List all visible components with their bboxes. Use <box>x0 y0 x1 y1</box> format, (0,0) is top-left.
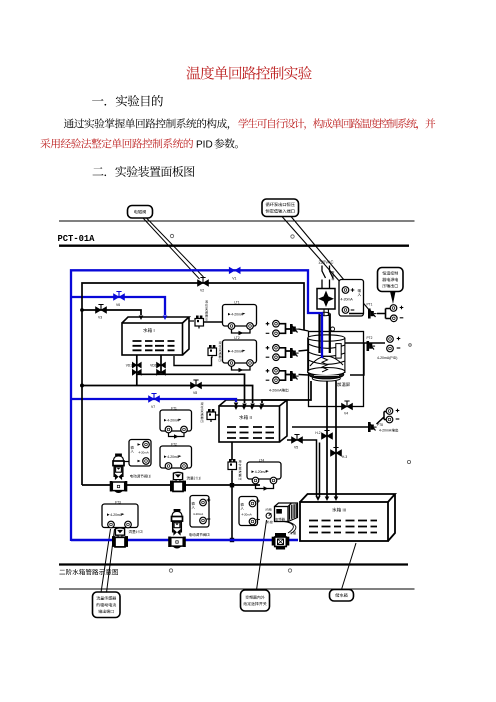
jack row 2 (temperature sensor) <box>290 348 293 358</box>
panel top thin rail <box>59 220 415 222</box>
screw hole right <box>407 460 410 463</box>
valve positioner input box 3 <box>239 497 258 526</box>
valve V2 <box>198 280 209 286</box>
svg-text:4-20mA: 4-20mA <box>341 298 354 302</box>
screw hole near PT2 <box>409 344 412 347</box>
heater enclosure (jia wen ping) <box>309 332 364 407</box>
valve V4 on heater hotwell <box>342 403 353 409</box>
panel bottom thin rail <box>59 588 415 590</box>
water tank II <box>219 400 287 442</box>
panel top thick rail <box>59 244 409 246</box>
blue valve V6 <box>114 294 125 300</box>
blue pipe: branch to tank II <box>71 399 236 402</box>
black pipe: tank II overflow to tank III (double) <box>287 440 320 497</box>
leader to PT1 jack <box>291 217 370 312</box>
FT1 display box <box>160 410 192 431</box>
leader from inverter callout <box>257 520 267 590</box>
jack row 1 (heater power) <box>290 324 293 334</box>
callout: solenoid valve (dian ci fa) <box>128 206 153 219</box>
callout: pump outlet / setpoint input port <box>262 199 299 217</box>
water tank III <box>300 494 395 541</box>
black pipe: branch to tank I <box>82 310 141 315</box>
wire PT1 box to jack PT1 <box>349 313 385 315</box>
svg-text:V5: V5 <box>294 446 298 450</box>
wire heater to jack PT2 <box>345 343 385 375</box>
svg-text:PT1: PT1 <box>367 303 373 307</box>
leaders from flow sensor callout <box>101 529 115 593</box>
svg-text:H-2: H-2 <box>315 431 320 435</box>
valve H-3 <box>331 450 342 456</box>
wire transmitter1 to LT1 box <box>204 321 222 323</box>
tail of thermostat callout <box>390 292 396 305</box>
svg-text:LT4: LT4 <box>259 459 264 463</box>
black pipe: heater outlet to tank II <box>262 381 311 403</box>
svg-text:PT2: PT2 <box>367 336 373 340</box>
svg-text:4-20mA: 4-20mA <box>167 419 180 423</box>
svg-text:V4: V4 <box>344 412 348 416</box>
turbine flowmeter 2 <box>115 528 124 535</box>
drain valves VD3 VD4 on tank I right outlet <box>157 362 166 368</box>
svg-text:4-20mA: 4-20mA <box>231 350 244 354</box>
temperature probe <box>331 327 335 331</box>
blue pipe: main loop left/top to heater <box>71 270 322 541</box>
valve V3 <box>96 307 107 313</box>
svg-text:V2: V2 <box>200 289 204 293</box>
svg-text:4-20mA: 4-20mA <box>110 513 123 517</box>
terminal pair PT1 (thermostat power) <box>385 309 387 319</box>
LT2 display box <box>223 340 257 363</box>
svg-text:4-20mA: 4-20mA <box>193 512 203 516</box>
valve positioner input box 2 <box>190 496 209 528</box>
level transmitter 1 (tank I) <box>189 320 194 322</box>
svg-text:V8: V8 <box>193 391 197 395</box>
drain valves VD1 VD2 on tank I left outlet <box>132 362 141 368</box>
svg-text:FT1: FT1 <box>171 407 177 411</box>
svg-text:4-20mA: 4-20mA <box>242 513 252 517</box>
svg-text:220VAC: 220VAC <box>319 260 334 265</box>
blue pipe: bottom return line <box>71 539 298 542</box>
svg-text:4-20mA(PID): 4-20mA(PID) <box>377 356 397 360</box>
solenoid outlet pipes <box>324 309 328 316</box>
breaker switches <box>322 266 333 289</box>
inner tube <box>320 314 330 354</box>
svg-text:4-20mA: 4-20mA <box>379 429 392 433</box>
callout: flow sensor drive current output port <box>93 592 121 618</box>
screw hole top-left <box>170 234 173 237</box>
heading 2 <box>93 166 195 177</box>
leader from solenoid callout to valve V2 <box>143 218 204 279</box>
terminal pair row 1 (heater power) <box>266 322 270 326</box>
svg-text:V6: V6 <box>116 303 120 307</box>
black pipe: tank I drain header <box>82 386 253 404</box>
LT2 wires down <box>232 367 251 371</box>
svg-text:VD2: VD2 <box>150 364 156 368</box>
valve H-2 <box>322 433 333 439</box>
svg-text:V3: V3 <box>98 316 102 320</box>
water tank I <box>122 317 189 355</box>
wire jack to heater <box>299 329 309 331</box>
svg-text:PCT-01A: PCT-01A <box>58 234 96 244</box>
wires inverter to pump <box>284 522 296 534</box>
wire jack to heater <box>299 350 309 351</box>
svg-text:V7: V7 <box>151 405 155 409</box>
svg-text:4-20mA: 4-20mA <box>255 470 268 474</box>
valve V8 on drain header <box>191 382 202 388</box>
screw hole bottom-left <box>169 569 172 572</box>
svg-text:VD1: VD1 <box>126 364 132 368</box>
heading 1 <box>92 95 163 107</box>
terminal pair PT2 <box>387 336 394 343</box>
screw hole top-right <box>291 235 294 238</box>
caption: two-tank piping schematic <box>59 569 118 575</box>
svg-text:LT2: LT2 <box>234 336 239 340</box>
LT4 display box <box>247 462 281 479</box>
panel bottom thick rail <box>59 563 408 565</box>
turbine flowmeter 1 <box>173 472 182 479</box>
svg-text:FT3: FT3 <box>115 501 121 505</box>
svg-text:FT2: FT2 <box>171 443 177 447</box>
paragraph line 2 <box>40 138 193 148</box>
leader to breaker <box>282 217 341 284</box>
paragraph line 1 <box>64 118 229 129</box>
line to PT8 jack <box>292 426 368 428</box>
FT3 display box <box>102 504 138 528</box>
level transmitter 3 (tank II) <box>213 414 219 416</box>
circulation pump <box>275 533 286 537</box>
blue valve V1 <box>229 267 240 273</box>
PT1 input box <box>339 280 364 317</box>
document title <box>186 66 311 80</box>
heater vessel body <box>308 335 345 341</box>
level transmitter 2 <box>174 356 212 366</box>
terminal pair row 3 (stirrer) <box>266 369 270 373</box>
wire jack to heater <box>299 374 309 377</box>
solenoid valve box <box>317 289 335 310</box>
electric control valve 2 <box>174 509 181 512</box>
svg-text:4-20mA: 4-20mA <box>139 451 149 455</box>
svg-text:II: II <box>250 415 252 420</box>
callout: inverter internal/external setpoint switch <box>241 590 270 611</box>
black pipe: tank I left outlet <box>137 355 161 386</box>
wire input box to control valve 1 <box>125 461 130 463</box>
black pipes: heater bottom to tank III <box>327 381 336 497</box>
screw hole bottom-mid <box>288 569 291 572</box>
internal/external setpoint switch <box>266 508 272 511</box>
stirrer <box>336 344 341 359</box>
black pipe: inner loop <box>82 283 304 485</box>
flow line (control valve 1 row) <box>82 484 260 486</box>
svg-text:4-20mA: 4-20mA <box>269 389 282 393</box>
valve positioner input box 1 <box>129 440 151 467</box>
blue pipe: branch to tank I <box>71 297 165 315</box>
FT2 display box <box>160 446 192 468</box>
callout: thermostat power output port <box>378 268 404 292</box>
level transmitter 4 wire down from tank II <box>231 442 233 540</box>
LT1 display box <box>223 305 257 327</box>
svg-text:I: I <box>154 328 155 333</box>
terminal pair PT8 <box>386 408 393 415</box>
LT4 wires to drain line <box>256 484 274 489</box>
tank II inlet arrows <box>234 406 239 411</box>
svg-text:V1: V1 <box>232 277 236 281</box>
callout: storage tank <box>330 590 354 602</box>
svg-text:III: III <box>343 508 347 513</box>
terminal pair row 2 (temperature sensor) <box>266 346 270 350</box>
blue valve V7 <box>149 396 160 402</box>
heater coil swirl <box>308 344 345 364</box>
wire jack PT8 to terminals <box>377 412 387 425</box>
electric control valve 1 <box>115 454 122 457</box>
svg-text:PID: PID <box>196 140 213 151</box>
heater spring coil <box>322 358 328 372</box>
jack PT8 <box>368 422 371 432</box>
jack row 3 (stirrer) <box>290 371 293 381</box>
svg-text:LT1: LT1 <box>234 301 239 305</box>
inverter / pump motor box <box>275 503 298 522</box>
svg-text:H-3: H-3 <box>342 455 347 459</box>
black pipe: tank I outlet cross line to tank II <box>137 374 245 403</box>
leader from storage tank callout <box>342 543 357 590</box>
valve V5 <box>292 437 303 443</box>
svg-text:4-20mA: 4-20mA <box>167 455 180 459</box>
svg-text:4-20mA: 4-20mA <box>231 313 244 317</box>
